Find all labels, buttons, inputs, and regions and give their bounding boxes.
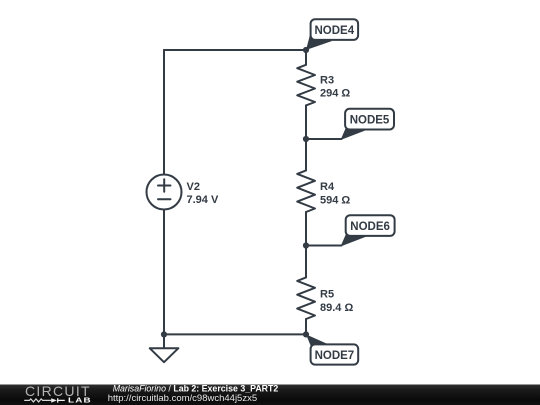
junction node E bottom-left	[161, 331, 167, 337]
svg-text:594 Ω: 594 Ω	[320, 194, 350, 206]
wire node6 to R5	[305, 246, 307, 278]
wire R4 to node6	[305, 212, 307, 246]
wire R3 to node5	[305, 105, 307, 139]
logo resistor squiggle	[24, 399, 51, 402]
junction node C (node6)	[303, 242, 309, 248]
svg-text:294 Ω: 294 Ω	[320, 88, 350, 100]
footer bar	[0, 385, 540, 405]
wire left vertical lower	[163, 210, 165, 335]
V2 plus sign	[158, 179, 171, 191]
svg-text:R3: R3	[320, 75, 334, 87]
svg-text:NODE4: NODE4	[314, 25, 354, 37]
wire right top lead	[305, 50, 307, 65]
svg-text:NODE7: NODE7	[315, 350, 355, 362]
wire stub NODE6 flag	[306, 245, 342, 247]
resistor R5	[297, 277, 315, 319]
flag NODE6 tail	[341, 231, 367, 247]
wire bottom horizontal	[164, 333, 306, 335]
wire top horizontal	[164, 49, 306, 51]
flag NODE7 tail	[306, 334, 332, 349]
svg-text:89.4 Ω: 89.4 Ω	[320, 302, 353, 314]
flag NODE4 tail	[306, 31, 332, 50]
svg-text:V2: V2	[187, 181, 200, 193]
flag NODE6 box	[346, 215, 395, 236]
svg-text:7.94 V: 7.94 V	[187, 194, 219, 206]
resistor R4	[297, 170, 315, 212]
junction node A top	[303, 47, 309, 53]
resistor R3	[297, 65, 315, 106]
wire stub NODE5 flag	[306, 138, 342, 140]
logo diode	[51, 398, 57, 402]
svg-text:http://circuitlab.com/c98wch44: http://circuitlab.com/c98wch44j5zx5	[108, 393, 257, 404]
junction node D (node7)	[303, 331, 309, 337]
flag NODE5 tail	[341, 124, 367, 140]
svg-text:R5: R5	[320, 288, 334, 300]
svg-text:LAB: LAB	[68, 396, 92, 405]
wire R5 to node7	[305, 319, 307, 334]
voltage source V2 circle	[147, 175, 182, 210]
svg-text:NODE5: NODE5	[350, 114, 390, 126]
svg-text:R4: R4	[320, 181, 335, 193]
flag NODE5 box	[345, 109, 394, 130]
junction node B (node5)	[303, 136, 309, 142]
ground symbol	[150, 348, 179, 362]
flag NODE7 box	[311, 344, 359, 364]
svg-text:NODE6: NODE6	[350, 221, 390, 233]
flag NODE4 box	[311, 19, 359, 40]
svg-text:MarisaFiorino / Lab 2: Exercis: MarisaFiorino / Lab 2: Exercise 3_PART2	[113, 383, 279, 393]
V2 minus sign	[158, 198, 171, 200]
wire node5 to R4	[305, 139, 307, 170]
ground stub	[163, 334, 165, 348]
wire left vertical upper	[163, 50, 165, 175]
